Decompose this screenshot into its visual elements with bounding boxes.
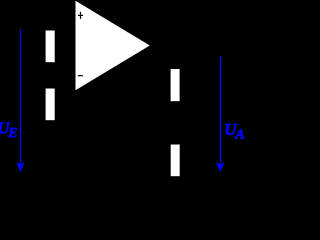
resistor R3: [171, 69, 180, 101]
op-amp U1 minus input label: [78, 75, 83, 77]
resistor R4: [171, 145, 180, 177]
op-amp U1 plus input label: [78, 12, 83, 19]
svg-text:UA: UA: [224, 120, 244, 142]
resistor R2: [46, 89, 55, 121]
resistor R1: [46, 31, 55, 63]
op-amp U1: [76, 1, 150, 91]
voltage arrow UA: [216, 56, 225, 172]
voltage arrow UE: [16, 30, 25, 172]
svg-text:UE: UE: [0, 118, 18, 140]
